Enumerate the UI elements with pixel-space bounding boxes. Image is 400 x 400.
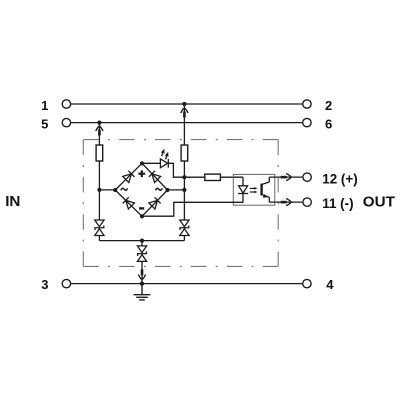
wire center TVS to line 3 xyxy=(141,261,143,283)
node ground row xyxy=(140,239,144,243)
terminal 3 xyxy=(62,279,70,287)
svg-text:IN: IN xyxy=(5,193,20,210)
wire bridge right vertex to right branch xyxy=(168,189,185,191)
wire left TVS to row xyxy=(98,236,100,241)
wire collector to terminal 12 xyxy=(269,176,302,178)
svg-text:OUT: OUT xyxy=(363,193,396,210)
bridge diode top-left xyxy=(123,171,135,183)
wire opto return to bridge bottom xyxy=(142,202,243,216)
svg-text:2: 2 xyxy=(325,98,332,113)
resistor R2 xyxy=(181,145,188,161)
wire line1 to resistor R2 xyxy=(183,104,185,145)
svg-text:11 (-): 11 (-) xyxy=(322,196,353,211)
bridge node left xyxy=(113,188,117,192)
arrow out terminal 12 xyxy=(281,174,292,181)
TVS diode right xyxy=(180,220,189,236)
node right branch bridge junction xyxy=(182,188,186,192)
wire line 5-6 xyxy=(71,122,303,124)
bridge minus sign xyxy=(139,207,144,209)
terminal 2 xyxy=(303,100,311,108)
enclosure dash-dot box xyxy=(83,140,278,267)
TVS diode left xyxy=(95,220,104,236)
svg-text:6: 6 xyxy=(325,116,332,131)
wire emitter to terminal 11 xyxy=(269,201,302,203)
terminal 12 xyxy=(303,173,311,181)
optocoupler U1 box xyxy=(233,174,274,205)
wire R3 to optocoupler xyxy=(220,176,243,178)
wire line 1-2 xyxy=(71,103,303,105)
bridge tilde left xyxy=(121,188,128,190)
node on line 1 xyxy=(182,102,186,106)
bridge diode bottom-right xyxy=(149,197,161,209)
bridge node bottom xyxy=(140,214,144,218)
LED light arrow 1 xyxy=(161,149,165,157)
TVS diode center xyxy=(137,246,146,262)
svg-text:5: 5 xyxy=(41,116,48,131)
terminal 5 xyxy=(62,118,70,126)
wire R2 down right branch xyxy=(183,161,185,220)
wire right branch to resistor R3 xyxy=(184,176,204,178)
wire LED to right branch xyxy=(168,163,184,177)
svg-text:3: 3 xyxy=(41,277,48,292)
wire line5 to resistor R1 xyxy=(98,123,100,145)
bridge diode top-right xyxy=(149,171,161,183)
terminal 6 xyxy=(303,118,311,126)
terminal 4 xyxy=(303,279,311,287)
bridge rectifier edges xyxy=(115,163,167,216)
arrow up into line 5 xyxy=(96,126,103,136)
ground xyxy=(134,284,151,300)
node left branch to bridge xyxy=(97,188,101,192)
LED light arrow 2 xyxy=(165,152,169,160)
wire opto LED anode xyxy=(242,177,244,186)
node on line 3 xyxy=(140,282,144,286)
opto light arrow 1 xyxy=(250,187,258,190)
svg-text:1: 1 xyxy=(41,98,48,113)
arrow out terminal 11 xyxy=(281,199,292,206)
resistor R3 xyxy=(205,174,221,180)
opto light arrow 2 xyxy=(250,191,258,194)
bridge plus sign xyxy=(138,170,145,177)
svg-text:12 (+): 12 (+) xyxy=(322,171,357,186)
resistor R1 xyxy=(96,145,103,161)
wire right TVS to row xyxy=(183,236,185,241)
opto LED xyxy=(238,186,248,194)
terminal 1 xyxy=(62,100,70,108)
svg-text:4: 4 xyxy=(326,277,334,292)
terminal 11 xyxy=(303,198,311,206)
wire bridge top to LED xyxy=(142,162,160,164)
bridge diode bottom-left xyxy=(123,197,135,209)
LED indicator xyxy=(160,159,168,168)
arrow down to line 3 xyxy=(138,269,145,279)
node right branch LED junction xyxy=(182,175,186,179)
wire line 3-4 xyxy=(71,283,303,285)
bridge node top xyxy=(140,161,144,165)
node on line 5 xyxy=(97,121,101,125)
wire opto LED cathode xyxy=(242,194,244,203)
arrow up into line 1 xyxy=(181,108,188,118)
wire row to center TVS xyxy=(141,241,143,246)
bridge tilde right xyxy=(156,188,163,190)
wire ground row xyxy=(99,240,184,242)
wire R1 down left branch xyxy=(98,161,100,220)
opto phototransistor Q1 xyxy=(262,177,270,202)
wire bridge left vertex to left branch xyxy=(99,189,115,191)
bridge node right xyxy=(165,188,169,192)
